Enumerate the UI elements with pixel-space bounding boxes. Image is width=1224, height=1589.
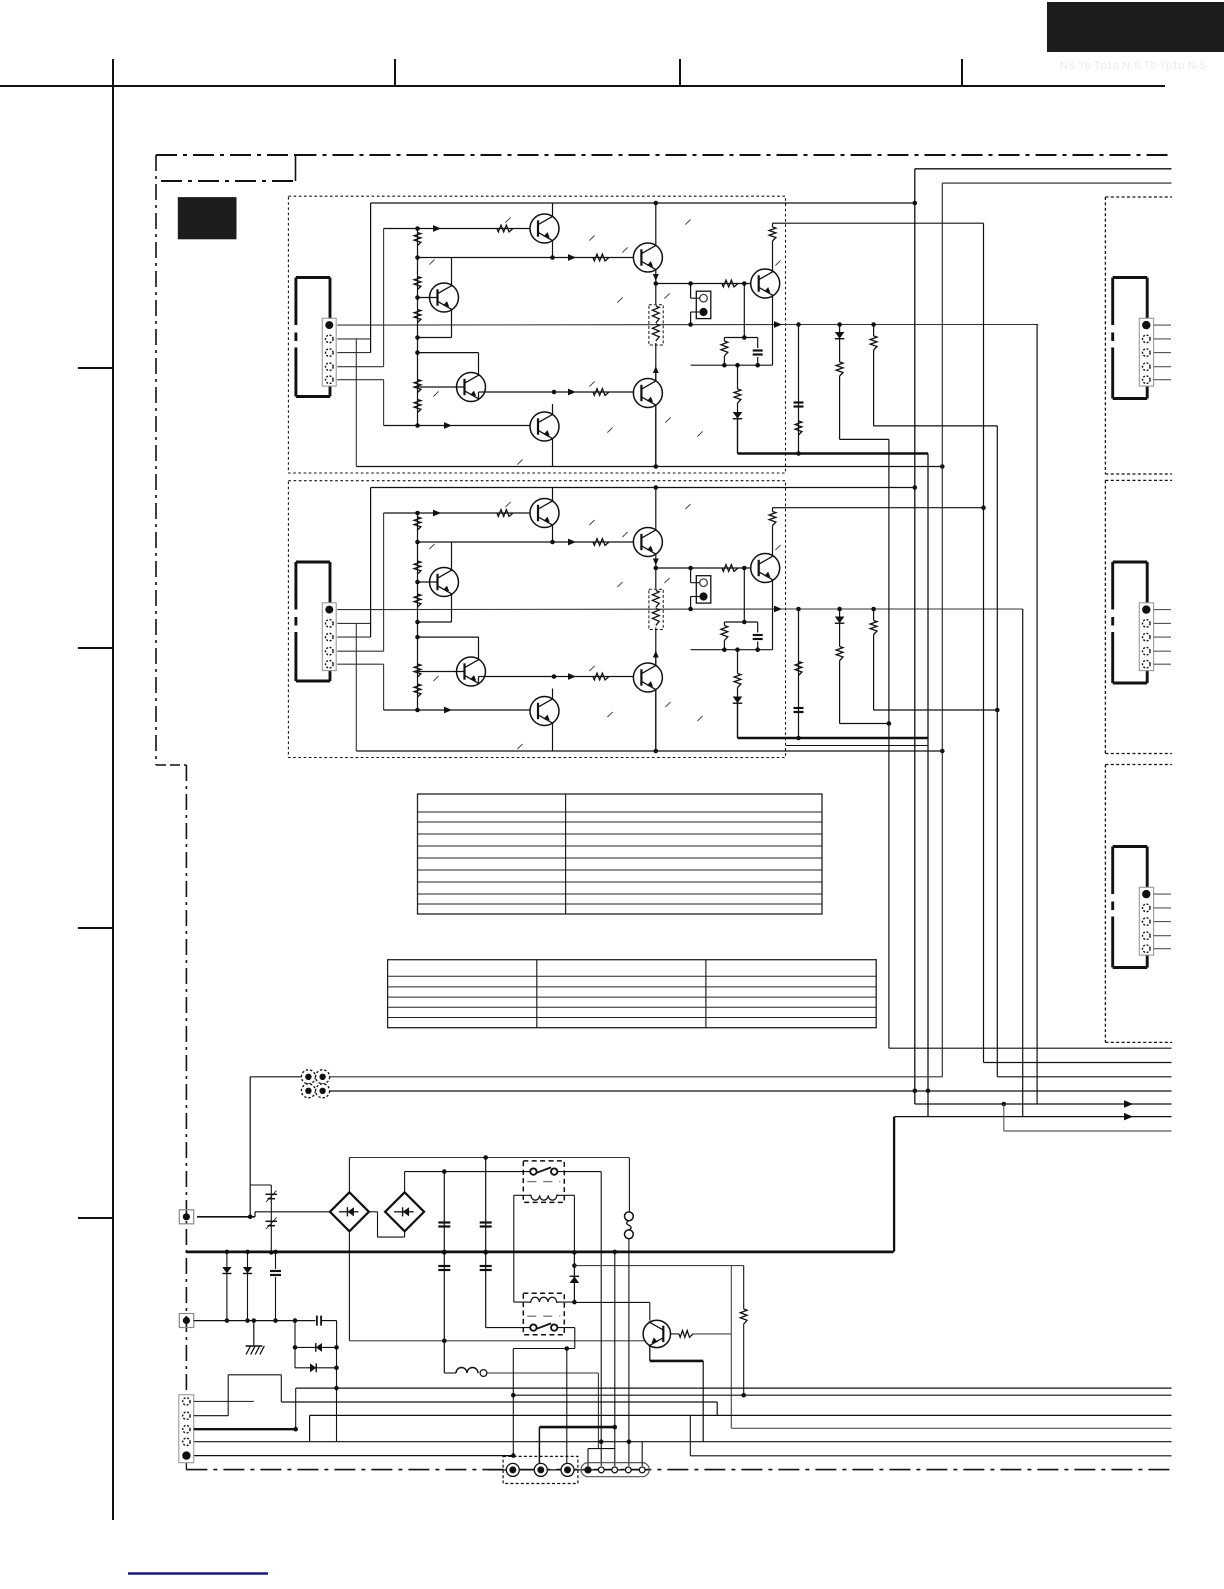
svg-text:NS Tb Tp1p N-S Tb Tp1p N-S: NS Tb Tp1p N-S Tb Tp1p N-S — [1060, 60, 1207, 72]
